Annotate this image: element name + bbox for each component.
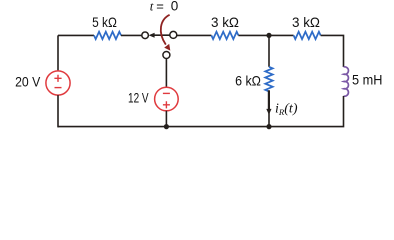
12V plus sign (bottom) xyxy=(163,101,170,108)
svg-text:5 kΩ: 5 kΩ xyxy=(92,14,117,30)
inductor L 5mH coil xyxy=(344,67,349,96)
svg-text:=: = xyxy=(156,0,164,14)
resistor 6k vertical zigzag xyxy=(265,67,272,92)
switch blade with left arrowhead xyxy=(153,34,170,36)
svg-text:0: 0 xyxy=(171,0,179,14)
20V minus sign xyxy=(55,87,62,89)
wire: left side down from top-left corner to 20V source xyxy=(57,35,59,71)
20V plus sign xyxy=(54,75,61,82)
svg-text:12 V: 12 V xyxy=(128,89,149,105)
wire: 12V source to bottom junction xyxy=(165,111,167,127)
resistor 3k #1 zigzag xyxy=(211,32,238,39)
current arrow iR(t) on 6k branch xyxy=(268,90,270,110)
12V minus sign (top) xyxy=(163,92,170,94)
source V1 20V circle xyxy=(46,71,70,95)
svg-text:3 kΩ: 3 kΩ xyxy=(292,14,320,30)
resistor R 5k zigzag xyxy=(94,32,121,39)
svg-text:6 kΩ: 6 kΩ xyxy=(235,72,261,88)
junction dot at 6k branch bottom xyxy=(266,124,271,129)
svg-text:3 kΩ: 3 kΩ xyxy=(211,14,239,30)
wire: inductor to bottom-right corner xyxy=(269,96,344,127)
wire: 20V source to bottom-left corner xyxy=(57,95,59,127)
wire: switch right contact to 3k#1 xyxy=(177,34,212,36)
svg-text:20 V: 20 V xyxy=(15,74,41,90)
red switching arc t=0 xyxy=(161,15,170,45)
svg-text:5 mH: 5 mH xyxy=(352,72,382,88)
wire: bottom from 6k branch to 12V branch to bottom-left corner xyxy=(58,126,269,128)
wire: switch lower contact down to 12V source xyxy=(165,59,167,88)
svg-text:iR(t): iR(t) xyxy=(275,102,298,118)
wire: 3k#1 to node A xyxy=(238,34,293,36)
wire: 6k resistor to bottom junction xyxy=(268,91,270,126)
svg-text:t: t xyxy=(150,0,154,14)
source V2 12V circle xyxy=(155,87,179,111)
wire: 5k to switch left contact xyxy=(121,34,142,36)
switch lower contact circle xyxy=(163,52,170,59)
wire: node A down to 6k resistor xyxy=(268,35,270,66)
switch right contact circle xyxy=(170,31,177,38)
junction dot at 12V branch bottom xyxy=(164,124,169,129)
resistor 3k #2 zigzag xyxy=(294,32,321,39)
wire: top-left horizontal (left corner to 5k resistor) xyxy=(58,34,94,36)
node A junction dot (top of 6k branch) xyxy=(266,33,271,38)
wire: 3k#2 to top-right corner and down to inductor xyxy=(321,35,344,67)
switch left contact circle xyxy=(142,32,149,39)
